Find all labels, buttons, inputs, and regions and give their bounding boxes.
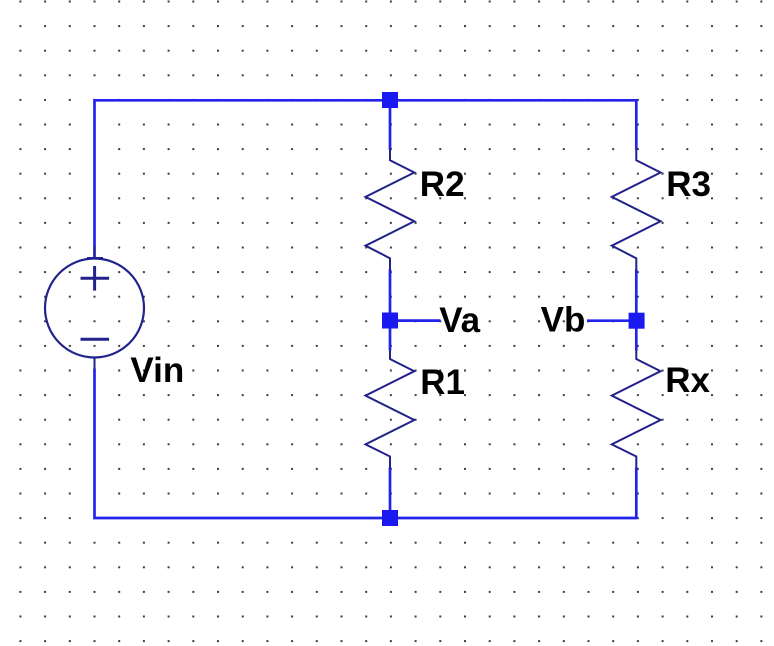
svg-text:R3: R3 bbox=[666, 165, 711, 204]
node junction bottom bbox=[382, 510, 398, 526]
resistor R1 bbox=[366, 350, 415, 469]
resistor R3 bbox=[612, 148, 661, 271]
wire: bottom rail with left rise and right rise bbox=[95, 369, 637, 519]
wire: middle branch stub from top node to R2 bbox=[389, 100, 392, 149]
svg-text:Va: Va bbox=[439, 301, 480, 340]
node Va junction bbox=[382, 313, 398, 329]
wire: R1 bottom to bottom node bbox=[389, 468, 392, 519]
wire: R2 bottom to node Va bbox=[389, 270, 392, 314]
svg-text:R1: R1 bbox=[420, 363, 465, 402]
resistor Rx bbox=[612, 350, 661, 469]
resistor R2 bbox=[366, 148, 415, 271]
svg-text:Rx: Rx bbox=[665, 361, 710, 400]
wire: Vb tap bbox=[587, 319, 629, 322]
wire: R3 bottom to node Vb bbox=[635, 270, 638, 314]
wire: node Vb to Rx top bbox=[635, 329, 638, 351]
wire: Va tap bbox=[398, 319, 441, 322]
wire: node Va to R1 top bbox=[389, 328, 392, 351]
wire: top rail with left drop and right drop bbox=[95, 100, 637, 257]
svg-text:R2: R2 bbox=[420, 165, 465, 204]
node Vb junction bbox=[629, 313, 645, 329]
voltage source Vin bbox=[45, 246, 144, 370]
svg-text:Vin: Vin bbox=[130, 351, 184, 390]
node junction top bbox=[382, 92, 398, 108]
svg-text:Vb: Vb bbox=[541, 301, 586, 340]
